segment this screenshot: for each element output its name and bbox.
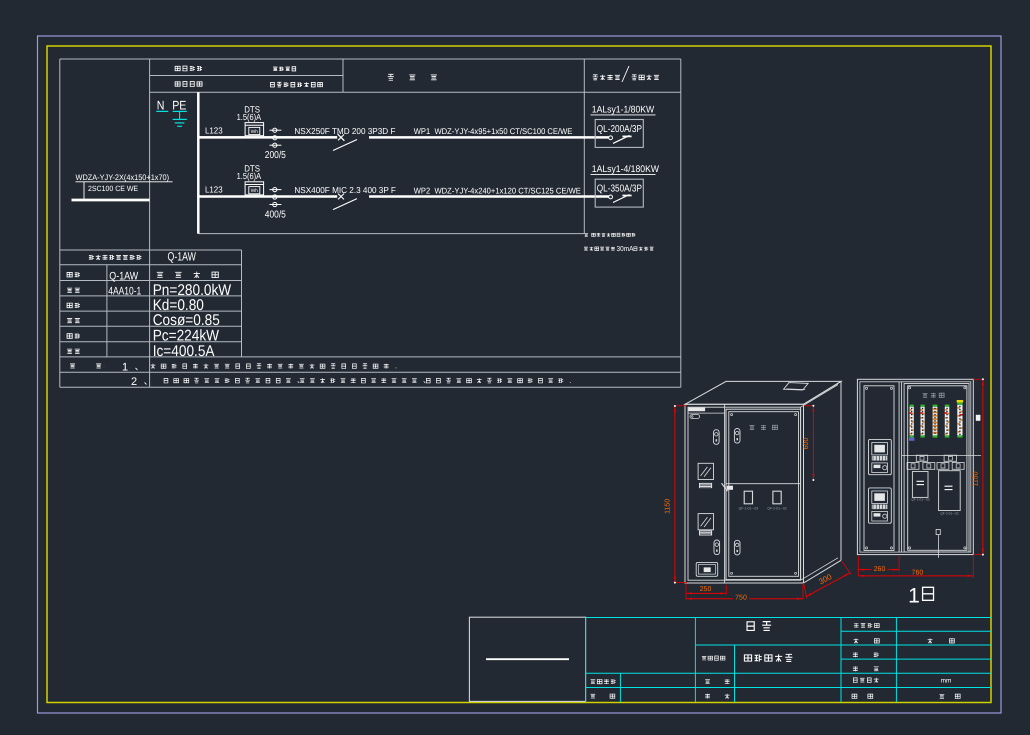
svg-text:760: 760 xyxy=(912,569,924,576)
svg-text:QL-350A/3P: QL-350A/3P xyxy=(597,184,642,195)
svg-text:QF-1-01~-03: QF-1-01~-03 xyxy=(739,507,759,511)
svg-text:300: 300 xyxy=(817,572,834,587)
svg-text:QF-1-01~-03: QF-1-01~-03 xyxy=(911,498,930,502)
svg-text:PE: PE xyxy=(172,99,186,113)
svg-text:750: 750 xyxy=(735,595,747,602)
svg-text:1ALsy1-1/80KW: 1ALsy1-1/80KW xyxy=(592,104,655,115)
svg-text:200/5: 200/5 xyxy=(265,150,286,161)
svg-text:WP1: WP1 xyxy=(414,126,431,136)
svg-text:WP2: WP2 xyxy=(414,185,431,195)
svg-text:Q-1AW: Q-1AW xyxy=(109,270,138,282)
svg-text:WDZ-YJY-4x240+1x120 CT/SC125 C: WDZ-YJY-4x240+1x120 CT/SC125 CE/WE xyxy=(435,186,582,195)
svg-text:Ic=400.5A: Ic=400.5A xyxy=(153,343,215,360)
svg-text:QF-2-01~-02: QF-2-01~-02 xyxy=(767,507,787,511)
svg-text:2SC100 CE WE: 2SC100 CE WE xyxy=(88,184,138,193)
svg-text:Wh: Wh xyxy=(251,129,259,135)
svg-text:L123: L123 xyxy=(205,185,223,195)
svg-text:4AA10-1: 4AA10-1 xyxy=(108,286,141,298)
svg-text:1.5(6)A: 1.5(6)A xyxy=(237,171,262,181)
svg-text:600: 600 xyxy=(803,438,810,450)
svg-text:QL-200A/3P: QL-200A/3P xyxy=(597,124,642,135)
svg-text:1.5(6)A: 1.5(6)A xyxy=(237,112,262,122)
svg-text:2: 2 xyxy=(131,376,137,388)
svg-text:1: 1 xyxy=(908,585,920,608)
svg-text:QF-2-01~-02: QF-2-01~-02 xyxy=(940,512,959,516)
svg-text:mm: mm xyxy=(941,678,952,685)
svg-text:L123: L123 xyxy=(205,126,223,136)
svg-text:NSX250F TMD 200 3P3D F: NSX250F TMD 200 3P3D F xyxy=(294,126,395,136)
svg-text:Q-1AW: Q-1AW xyxy=(168,250,197,264)
svg-text:WDZA-YJY-2X(4x150+1x70): WDZA-YJY-2X(4x150+1x70) xyxy=(76,173,170,182)
svg-text:260: 260 xyxy=(874,566,886,573)
svg-text:WDZ-YJY-4x95+1x50 CT/SC100 CE/: WDZ-YJY-4x95+1x50 CT/SC100 CE/WE xyxy=(435,127,573,136)
svg-text:Wh: Wh xyxy=(251,188,259,194)
svg-text:1150: 1150 xyxy=(665,499,672,514)
svg-text:1ALsy1-4/180KW: 1ALsy1-4/180KW xyxy=(592,164,660,175)
svg-text:250: 250 xyxy=(700,586,712,593)
svg-text:N: N xyxy=(157,99,165,113)
svg-text:400/5: 400/5 xyxy=(265,209,286,220)
svg-text:1150: 1150 xyxy=(973,471,980,486)
svg-text:NSX400F MIC 2.3 400 3P F: NSX400F MIC 2.3 400 3P F xyxy=(294,185,396,195)
svg-text:30mA: 30mA xyxy=(617,244,634,253)
svg-text:1: 1 xyxy=(122,362,128,374)
